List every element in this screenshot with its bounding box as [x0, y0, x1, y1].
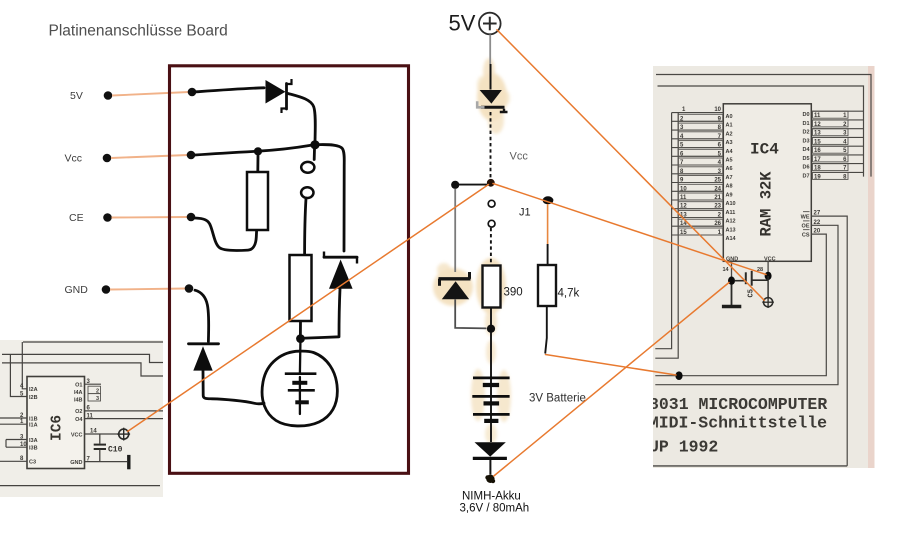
- junction node C (NIMH-Akku): [485, 475, 495, 484]
- svg-text:A0: A0: [726, 114, 733, 120]
- schematic frame (bottom): [653, 465, 847, 467]
- connector loop (upper): [313, 149, 316, 160]
- bus line (IC6 top 2, stepped): [2, 363, 163, 376]
- bus line (IC6 top short): [23, 341, 163, 343]
- svg-text:19: 19: [814, 174, 821, 180]
- svg-text:4,7k: 4,7k: [558, 288, 580, 300]
- wire: node Vcc to left branch: [459, 184, 487, 186]
- IC4 pin row A7 (8/3): [672, 167, 733, 181]
- svg-text:5V: 5V: [70, 90, 83, 102]
- svg-text:C3: C3: [29, 460, 36, 466]
- svg-text:O1: O1: [75, 383, 82, 389]
- svg-text:VCC: VCC: [71, 432, 83, 438]
- svg-text:A9: A9: [726, 193, 733, 199]
- bus line (address, left inner): [655, 113, 678, 359]
- IC4 pin row A12 (13/2): [672, 211, 736, 225]
- bus stub (left vertical a): [10, 354, 27, 396]
- svg-text:21: 21: [714, 195, 721, 201]
- IC4 pin row A2 (3/8): [672, 123, 733, 137]
- svg-text:12: 12: [680, 204, 687, 210]
- svg-text:I3B: I3B: [29, 446, 38, 452]
- wire: D1 to node Vcc (dashed): [490, 112, 492, 179]
- link wire: R2 to microcomputer bus junction: [546, 355, 677, 376]
- IC4 pin row A6 (7/4): [672, 158, 733, 172]
- battery B2 (board, circled cell symbol): [262, 343, 337, 426]
- capacitor C10: [94, 434, 106, 462]
- diode D1 (series schottky): [477, 90, 507, 112]
- svg-text:Platinenanschlüsse Board: Platinenanschlüsse Board: [49, 23, 228, 40]
- IC4 pin row A1 (2/9): [672, 114, 733, 128]
- svg-text:A6: A6: [726, 166, 733, 172]
- IC6 pin O2 (6): [75, 406, 163, 416]
- wire GND to board (orange): [110, 289, 186, 290]
- bus stub (left vertical b): [22, 342, 27, 389]
- bus line (outer, top/right): [656, 75, 871, 177]
- resistor R2 4,7k: [538, 265, 556, 306]
- svg-text:A14: A14: [726, 236, 737, 242]
- highlight mark over D1 (highlighter): [477, 58, 510, 134]
- svg-text:3,6V / 80mAh: 3,6V / 80mAh: [460, 503, 530, 515]
- svg-text:15: 15: [814, 139, 821, 145]
- wire: Vcc pad to junction N1: [195, 145, 311, 155]
- wire: D6 anode down to N3: [305, 289, 340, 338]
- IC4 pin row D6 (18/7): [802, 164, 863, 172]
- IC4 control pin WE (pin 27): [801, 211, 848, 466]
- svg-text:22: 22: [814, 220, 821, 226]
- svg-text:12: 12: [814, 122, 821, 128]
- svg-text:Vcc: Vcc: [65, 153, 83, 165]
- IC4 pin row A3 (4/7): [672, 132, 733, 146]
- svg-text:D2: D2: [802, 130, 809, 136]
- link wire: node Vcc to IC4 VCC pin: [493, 184, 766, 275]
- wire: J1-right down to R2 (black part): [547, 244, 549, 265]
- junction N2 (Vcc row): [254, 147, 262, 155]
- junction (VCC net, C5 right): [765, 272, 772, 280]
- svg-text:VCC: VCC: [764, 256, 776, 262]
- IC4 pin row D5 (17/6): [802, 155, 863, 163]
- wire: loop to resistor R5: [305, 198, 306, 254]
- svg-text:390: 390: [504, 287, 523, 299]
- IC4 GND pin 14: [723, 256, 739, 277]
- junction on bus (R2 link target): [675, 371, 682, 380]
- svg-text:11: 11: [87, 413, 94, 419]
- svg-text:5V: 5V: [449, 11, 476, 36]
- pad CE (board): [187, 213, 196, 222]
- wire: node A down to zener D2 (gray): [454, 189, 456, 272]
- pad 5V (board): [188, 88, 197, 97]
- svg-text:I4B: I4B: [74, 397, 83, 403]
- svg-text:UP 1992: UP 1992: [649, 437, 718, 456]
- pad GND (left): [102, 285, 111, 294]
- wire: J1-right down to R2 (orange part): [547, 204, 549, 244]
- svg-text:23: 23: [714, 204, 721, 210]
- svg-text:10: 10: [680, 186, 687, 192]
- IC6 pin O4 (11): [75, 413, 163, 423]
- wire: CE pad to R4 bottom: [195, 218, 257, 250]
- svg-text:O2: O2: [75, 409, 82, 415]
- link wire: node Vcc to IC6 supply symbol: [128, 185, 489, 432]
- junction (GND net, C5 left): [728, 277, 735, 285]
- wire: D5 cathode to junction N1: [288, 94, 315, 143]
- IC4 pin row A5 (6/5): [672, 149, 733, 163]
- jumper J1 (two pins): [488, 200, 495, 227]
- svg-text:J1: J1: [519, 207, 531, 219]
- scanned schematic background (8031 sheet): [653, 66, 875, 468]
- svg-text:14: 14: [90, 429, 97, 435]
- svg-text:I2A: I2A: [29, 387, 38, 393]
- IC U4 body: [723, 104, 811, 261]
- svg-text:D1: D1: [802, 121, 809, 127]
- IC4 pin row D2 (13/3): [802, 129, 863, 137]
- highlight mark over D2 (highlighter): [433, 263, 473, 306]
- zener diode D2: [439, 272, 471, 299]
- pad 5V (left): [104, 91, 113, 100]
- svg-text:D5: D5: [802, 156, 809, 162]
- svg-text:D4: D4: [802, 147, 810, 153]
- svg-text:A10: A10: [726, 201, 736, 207]
- bus line (address, left outer): [655, 113, 671, 349]
- IC4 pin row A14 (15/1): [672, 228, 737, 242]
- pad GND (board): [185, 284, 194, 293]
- svg-text:NIMH-Akku: NIMH-Akku: [462, 491, 521, 503]
- svg-text:15: 15: [680, 230, 687, 236]
- resistor R1 390: [483, 266, 501, 308]
- svg-text:O4: O4: [75, 417, 83, 423]
- IC4 pin row A4 (5/6): [672, 141, 734, 155]
- link wire: node C to IC4 GND: [494, 283, 729, 477]
- bus line (inner, top/right): [658, 86, 864, 177]
- svg-text:I2B: I2B: [29, 395, 38, 401]
- svg-text:25: 25: [714, 178, 721, 184]
- svg-text:RAM 32K: RAM 32K: [758, 171, 776, 237]
- VCC pin 28: [757, 256, 776, 273]
- wire: 5V terminal down to D1 (gray then black): [489, 35, 491, 65]
- wire CE to board (orange): [112, 216, 189, 219]
- diode D5 (board): [266, 79, 292, 113]
- wire 5V to board (orange): [112, 92, 189, 96]
- IC6 left pin rows: [0, 384, 38, 466]
- supply symbol (circle-cross, IC4): [762, 296, 774, 308]
- svg-text:GND: GND: [70, 460, 82, 466]
- IC4 control pin CS (pin 20): [655, 229, 826, 376]
- svg-text:14: 14: [723, 267, 730, 273]
- svg-text:D0: D0: [802, 112, 809, 118]
- svg-text:D6: D6: [802, 165, 809, 171]
- svg-text:26: 26: [714, 221, 721, 227]
- svg-text:20: 20: [814, 229, 821, 235]
- svg-text:10: 10: [20, 442, 27, 448]
- wire: R5 bottom to junction N3: [299, 322, 302, 335]
- svg-text:A13: A13: [726, 227, 736, 233]
- svg-text:3: 3: [96, 396, 99, 402]
- IC4 control pin OE (pin 22): [655, 220, 838, 385]
- svg-text:MIDI-Schnittstelle: MIDI-Schnittstelle: [649, 414, 827, 433]
- wire: J1 to R1 (dashed): [490, 228, 492, 265]
- wire: D3 to node C: [489, 460, 491, 475]
- IC6 body: [27, 377, 85, 469]
- svg-text:A1: A1: [726, 123, 733, 129]
- svg-text:A4: A4: [726, 149, 734, 155]
- svg-text:WE: WE: [801, 214, 810, 220]
- battery BT1 (3 cells): [472, 378, 509, 421]
- highlight mark over R1 390 (highlighter): [471, 258, 511, 444]
- link wire: 5V terminal to IC4 supply symbol: [497, 30, 764, 301]
- scanned schematic fragment background (IC6): [0, 340, 163, 497]
- svg-text:C10: C10: [108, 446, 123, 455]
- wire: D7 anode to battery B2: [203, 371, 264, 404]
- diode D7 (board): [189, 344, 219, 371]
- wire: N2 down to R4 top: [256, 156, 259, 172]
- IC4 pin row A11 (12/23): [672, 202, 736, 216]
- IC4 pin row D3 (15/4): [802, 137, 863, 145]
- resistor R4 (board): [247, 172, 268, 230]
- svg-text:D3: D3: [802, 138, 809, 144]
- svg-text:3V Batterie: 3V Batterie: [529, 393, 586, 405]
- svg-text:10: 10: [714, 107, 721, 113]
- junction node A (left branch): [451, 181, 459, 189]
- wire: R1 bottom to node B: [490, 308, 492, 325]
- svg-text:13: 13: [814, 131, 821, 137]
- svg-text:I1A: I1A: [29, 423, 38, 429]
- svg-text:24: 24: [714, 186, 721, 192]
- junction node B: [487, 325, 495, 333]
- wire: R2 bottom stub: [545, 306, 547, 353]
- IC4 pin row D1 (12/2): [802, 120, 863, 128]
- svg-text:I3A: I3A: [29, 438, 38, 444]
- IC4 pin row D0 (11/1): [802, 111, 863, 119]
- wire: D2 anode to node B: [455, 299, 486, 328]
- svg-text:A8: A8: [726, 184, 733, 190]
- svg-text:A7: A7: [726, 175, 733, 181]
- IC4 pin row D4 (16/5): [802, 146, 863, 154]
- IC4 pin row A9 (10/24): [672, 184, 733, 198]
- svg-text:8031 MICROCOMPUTER: 8031 MICROCOMPUTER: [649, 395, 827, 414]
- diode D6 (board): [324, 252, 357, 289]
- board outline frame: [170, 66, 409, 474]
- wire: GND pad to diode D7: [195, 290, 209, 341]
- svg-text:27: 27: [814, 211, 821, 217]
- svg-text:GND: GND: [65, 284, 89, 296]
- pad J1-right (bus tap): [543, 196, 554, 204]
- wire: N1 right and down to diode D6: [319, 145, 344, 251]
- svg-text:2: 2: [96, 389, 99, 395]
- pad CE (left): [103, 213, 112, 222]
- wire: node B down to battery BT1: [490, 333, 492, 443]
- svg-text:OE: OE: [802, 224, 810, 230]
- svg-text:Vcc: Vcc: [510, 151, 529, 163]
- svg-text:CS: CS: [802, 232, 810, 238]
- bus line (IC6 bottom): [0, 485, 160, 487]
- svg-text:A11: A11: [726, 210, 736, 216]
- svg-text:17: 17: [814, 157, 821, 163]
- svg-text:16: 16: [814, 148, 821, 154]
- IC6 pin GND (7): [70, 456, 127, 466]
- supply terminal 5V (+) circle: [479, 13, 501, 35]
- IC4 pin row D7 (19/8): [802, 172, 863, 180]
- wire: VCC pin to supply symbol: [767, 276, 769, 298]
- svg-text:I1B: I1B: [29, 416, 38, 422]
- wire: 5V pad to diode D5: [194, 88, 264, 92]
- IC4 pin row A13 (14/26): [672, 219, 736, 233]
- pad Vcc (board): [187, 151, 196, 160]
- svg-text:IC4: IC4: [750, 141, 779, 159]
- svg-text:A3: A3: [726, 140, 733, 146]
- diode D3 (NIMH): [473, 442, 507, 458]
- IC4 pin row A10 (11/21): [672, 193, 736, 207]
- svg-text:I4A: I4A: [74, 390, 83, 396]
- IC6 pin VCC (14): [71, 429, 119, 439]
- bus line (IC6 top 1, stepped): [2, 354, 163, 362]
- junction N3: [296, 334, 305, 343]
- svg-text:A12: A12: [726, 219, 736, 225]
- svg-text:IC6: IC6: [50, 415, 66, 441]
- svg-text:A2: A2: [726, 131, 733, 137]
- IC6 pin O1 (3): [74, 379, 101, 403]
- IC4 pin row A8 (9/25): [672, 176, 733, 190]
- junction node Vcc: [487, 179, 495, 187]
- svg-text:11: 11: [680, 195, 687, 201]
- svg-text:CE: CE: [69, 212, 84, 224]
- capacitor C5: [735, 271, 768, 298]
- svg-text:A5: A5: [726, 158, 733, 164]
- svg-text:D7: D7: [802, 173, 809, 179]
- junction N1: [310, 140, 319, 149]
- pad Vcc (left): [103, 154, 112, 163]
- resistor R5 (board): [290, 255, 312, 321]
- supply symbol (circle-cross, IC6): [117, 428, 130, 441]
- svg-text:11: 11: [814, 113, 821, 119]
- wire Vcc to board (orange): [111, 155, 188, 158]
- svg-text:18: 18: [814, 166, 821, 172]
- connector loop (lower): [301, 187, 313, 198]
- ground bar (IC6): [127, 455, 130, 469]
- ground symbol (IC4 GND): [722, 285, 741, 307]
- IC4 pin row A0 (1/10): [672, 107, 733, 120]
